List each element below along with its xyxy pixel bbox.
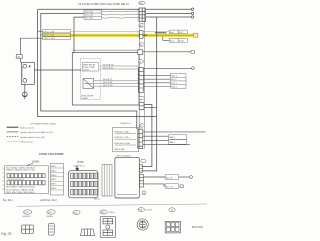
svg-text:ABF 2: ABF 2 <box>170 141 177 144</box>
fuse list table M/B border <box>5 166 49 194</box>
svg-text:CB: CB <box>17 57 21 59</box>
svg-text:2F-1 L 225: 2F-1 L 225 <box>44 31 55 33</box>
wire label boxes lower right <box>169 135 187 144</box>
connector 2F circle lower <box>139 124 145 127</box>
connector pictogram D <box>100 217 115 238</box>
relay coil box <box>83 79 94 89</box>
svg-text:SBF-1 SBF-2 SBF-3 SBF-4 SBF-5: SBF-1 SBF-2 SBF-3 SBF-4 SBF-5 <box>6 192 35 194</box>
svg-text:No.12 B 2L: No.12 B 2L <box>103 67 114 69</box>
svg-text:B 2Y: B 2Y <box>179 32 184 34</box>
wire F/B row 2 <box>144 184 166 186</box>
wire stub to left label row2 <box>41 34 43 36</box>
wires to label group <box>143 76 170 87</box>
connector pictogram C <box>81 229 95 236</box>
wire vertical from line3 down to big box <box>73 17 75 53</box>
wire to terminal circle right <box>143 67 191 69</box>
svg-text:FUSE No.7 15A: FUSE No.7 15A <box>114 136 129 139</box>
svg-text:2F-1 B2: 2F-1 B2 <box>85 11 94 13</box>
fuse list table M/B <box>6 166 35 194</box>
wire to terminal row1 <box>179 176 190 178</box>
connector terminal C2 <box>191 12 193 14</box>
ref circle F44 <box>73 210 80 214</box>
fuse grid <box>71 173 98 195</box>
svg-text:SBF-3: SBF-3 <box>51 175 56 177</box>
svg-text:2F-1 L 22Y: 2F-1 L 22Y <box>44 35 55 37</box>
wire lower pin 2 <box>143 135 169 137</box>
wire pump to main relay box <box>34 69 81 71</box>
svg-text:2F-2 B3: 2F-2 B3 <box>85 15 94 17</box>
svg-text:SBF-4: SBF-4 <box>51 179 56 181</box>
svg-text:Ignition switch circuit (ACC o: Ignition switch circuit (ACC or IG) <box>20 131 52 134</box>
wire down right side A <box>142 105 152 167</box>
wire label box row2 <box>165 184 178 189</box>
fuse box F/B drawing <box>69 171 99 198</box>
main relay label box <box>82 63 98 71</box>
separator line <box>17 204 207 206</box>
connector 2F circle mid <box>138 60 143 63</box>
yellow highlight band <box>43 34 198 37</box>
wire label group right <box>171 74 187 89</box>
svg-text:FUEL PUMP: FUEL PUMP <box>81 95 93 97</box>
connector pictogram E round <box>137 219 148 230</box>
legend row ignition <box>7 131 19 133</box>
svg-text:No.4 B: No.4 B <box>166 177 173 179</box>
connector circle above lower pin box <box>139 96 144 99</box>
ref circle F45 with text <box>100 210 107 214</box>
svg-text:SBF-2: SBF-2 <box>51 170 56 172</box>
wire dark segment on highlight <box>155 32 166 34</box>
svg-text:to W-H: to W-H <box>108 211 115 214</box>
legend row other <box>7 140 19 142</box>
wire lower pin 3 <box>143 139 169 141</box>
wire stub to left label row1 <box>38 30 43 32</box>
wire vertical bus left B <box>41 13 137 129</box>
wire tick right of pin pair <box>144 34 148 36</box>
wire label boxes (left trio on highlight) <box>43 30 71 40</box>
connector pin cells F/B right <box>139 165 142 172</box>
connector pictogram F square <box>165 221 180 233</box>
svg-text:Ignition switch circuit (ST): Ignition switch circuit (ST) <box>20 136 45 139</box>
connector pin box on ECM top right <box>138 50 143 55</box>
svg-text:No.8 20A No.9 15A No.10 15A sy: No.8 20A No.9 15A No.10 15A sys <box>6 186 35 189</box>
svg-text:F4-2 FUEL PUMP AND FUEL PUMP: F4-2 FUEL PUMP AND FUEL PUMP RELAY <box>78 2 130 6</box>
connector B21 <box>139 1 145 5</box>
ECM big box <box>72 53 139 105</box>
connector B circle mid <box>139 43 145 46</box>
connector terminal row1 <box>190 176 193 179</box>
svg-text:Fig. 25: Fig. 25 <box>1 232 11 236</box>
wire top line 1 <box>38 8 192 10</box>
svg-text:SBF-1: SBF-1 <box>51 166 56 168</box>
wire pump to ground <box>24 84 26 92</box>
svg-text:B2L 2: B2L 2 <box>171 79 177 81</box>
relay name label <box>81 95 93 100</box>
svg-text:RELAY: RELAY <box>81 97 88 100</box>
svg-text:FUSE No.4 15A: FUSE No.4 15A <box>114 130 129 133</box>
wire label boxes below highlight <box>169 38 187 42</box>
hatched side view <box>102 165 112 197</box>
svg-text:to W-H: to W-H <box>146 209 153 212</box>
svg-text:No.11 15A No.12 15A No.13 20A: No.11 15A No.12 15A No.13 20A <box>6 188 34 191</box>
svg-text:FUSE No.4: FUSE No.4 <box>121 123 132 125</box>
wire ECM lower pin to vertical <box>144 106 157 108</box>
svg-text:Battery circuit: Battery circuit <box>20 126 34 129</box>
wire top line 3 <box>74 16 191 18</box>
pin number ticks on strip <box>137 10 139 87</box>
connector terminal C3 <box>191 16 193 18</box>
fuel pump component <box>21 63 34 85</box>
svg-text:B2G 1: B2G 1 <box>171 75 178 77</box>
svg-text:e149 Fig. 29-2: e149 Fig. 29-2 <box>40 198 57 202</box>
connector strip vertical rails <box>139 8 144 149</box>
wire label boxes above highlight <box>169 30 187 34</box>
svg-text:2F-3 B5: 2F-3 B5 <box>85 18 94 20</box>
ref circle W <box>169 208 175 212</box>
svg-text:B 2B: B 2B <box>179 40 184 42</box>
connector pin column right of ECM <box>138 68 143 93</box>
wire F/B row 1 <box>144 176 166 178</box>
circuit breaker box CB <box>16 55 22 59</box>
svg-text:B2Y 3: B2Y 3 <box>171 83 177 85</box>
wire label box row1 <box>165 175 178 180</box>
wire lower pin 4 <box>143 144 190 146</box>
wire to right terminal <box>143 51 191 53</box>
wire lower pin 1 long <box>143 131 206 133</box>
svg-text:BU21-03A: BU21-03A <box>192 226 203 229</box>
wire top line 2 <box>41 12 192 14</box>
yellow highlighted connector end box <box>194 33 198 37</box>
connector pictogram B <box>49 223 55 235</box>
wire label boxes (top trio) <box>84 10 102 19</box>
connector pin column lower <box>138 129 143 149</box>
connector G circle <box>142 191 146 195</box>
svg-text:WH6 B: WH6 B <box>47 216 54 218</box>
svg-text:(F/B): (F/B) <box>77 160 84 164</box>
svg-text:B2B 4: B2B 4 <box>171 87 177 89</box>
wire inside highlight <box>71 34 194 36</box>
side strip table <box>50 164 63 195</box>
svg-text:15A No.5 20A No.6 15A No.7 15A: 15A No.5 20A No.6 15A No.7 15A <box>6 169 35 172</box>
svg-text:No.9 B 2W: No.9 B 2W <box>103 85 113 87</box>
svg-text:MB-16: MB-16 <box>94 199 101 201</box>
wire CB to pump <box>20 58 22 62</box>
connector i12 circle <box>141 159 146 162</box>
svg-text:FUSE No.14 20A: FUSE No.14 20A <box>114 142 130 145</box>
legend row battery <box>7 126 19 128</box>
svg-text:FUEL PUMP: FUEL PUMP <box>22 66 24 78</box>
svg-text:No.18 B 2G: No.18 B 2G <box>103 64 114 66</box>
connector block top (pins) <box>139 8 146 22</box>
connector pin box below ECM <box>139 102 144 109</box>
wire rows inside box top <box>100 66 138 69</box>
wire squiggles to connector <box>102 11 140 18</box>
svg-text:TO POWER SUPPLY (M/B): TO POWER SUPPLY (M/B) <box>30 123 56 125</box>
wire mid line above highlight <box>71 30 170 32</box>
svg-text:CB-2 L 22S: CB-2 L 22S <box>44 38 56 40</box>
svg-text:G: G <box>143 193 145 195</box>
wire corner to fuel pump branch <box>21 38 43 54</box>
connector terminal row2 <box>180 185 183 188</box>
ref circle F30 <box>47 210 55 214</box>
svg-text:SBF-4 30A: SBF-4 30A <box>114 148 124 151</box>
svg-text:SBF-6: SBF-6 <box>51 188 56 190</box>
svg-text:No.7 B: No.7 B <box>166 186 173 188</box>
connector terminal square <box>191 51 194 54</box>
svg-text:No.3 B 2Y: No.3 B 2Y <box>103 79 113 81</box>
svg-text:No.7 B 2B: No.7 B 2B <box>103 82 113 84</box>
connector terminal circle <box>192 67 195 70</box>
wire along box top <box>72 49 138 51</box>
wire jog below highlight <box>163 37 169 41</box>
legend row ignition st <box>7 136 19 138</box>
svg-text:MAIN RELAY: MAIN RELAY <box>83 64 96 67</box>
connector pictogram A <box>22 225 34 233</box>
wire down right side B <box>142 17 157 171</box>
svg-text:ABF 1: ABF 1 <box>170 136 177 139</box>
svg-text:(M/B): (M/B) <box>32 159 39 163</box>
ground <box>22 92 27 99</box>
svg-text:FUSE No.4: FUSE No.4 <box>74 166 85 168</box>
ref circle F16 <box>23 210 31 214</box>
connector terminal C1 <box>191 8 193 10</box>
ref circle F58 with text <box>138 208 145 212</box>
svg-text:Fig. 29-1: Fig. 29-1 <box>3 198 14 202</box>
svg-text:CONT: CONT <box>83 70 90 72</box>
relay inner dashed box <box>81 59 101 100</box>
wire rows inside box bottom <box>94 81 138 86</box>
arrow marker M/B list <box>27 163 33 165</box>
wire vertical bus left A <box>38 9 157 116</box>
svg-text:WH16 W: WH16 W <box>23 216 31 218</box>
connector B22 <box>139 24 145 28</box>
svg-text:SBF-5: SBF-5 <box>51 184 56 186</box>
connector pin pair on highlight <box>140 31 144 39</box>
svg-text:Other circuits: Other circuits <box>20 141 34 144</box>
svg-text:FUSE LOCATION: FUSE LOCATION <box>39 152 63 156</box>
